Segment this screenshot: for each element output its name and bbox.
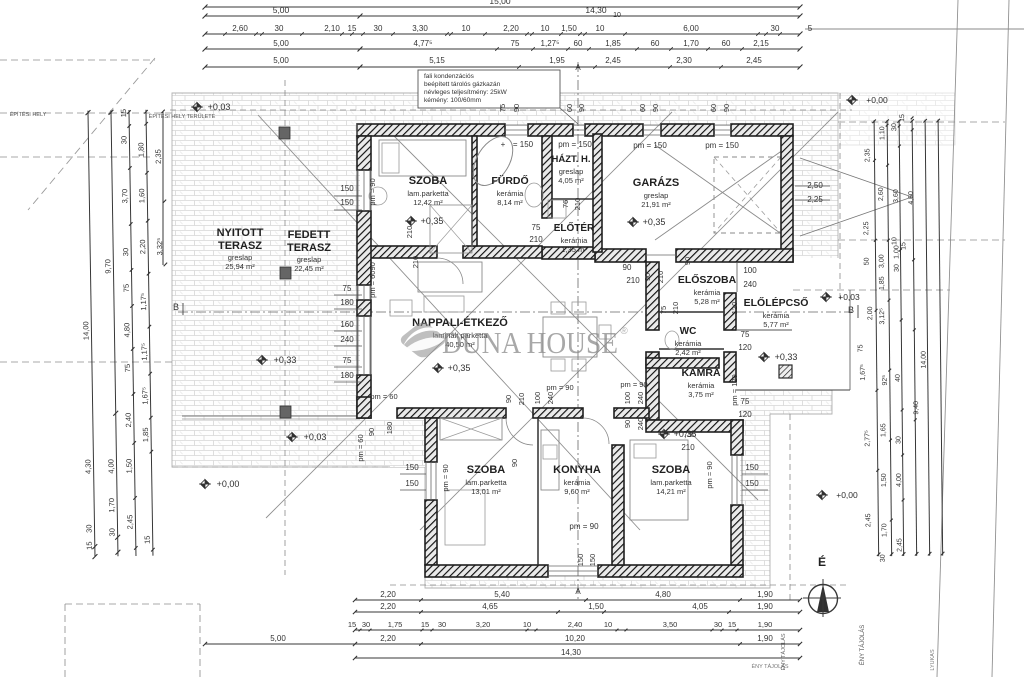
svg-text:3,70: 3,70 [120, 189, 129, 204]
dashed line top-left horizontal [0, 112, 172, 114]
svg-text:5,00: 5,00 [273, 5, 290, 15]
mini dim lines wing east stack [742, 473, 768, 475]
svg-text:SZOBA: SZOBA [409, 175, 448, 187]
svg-text:1,65: 1,65 [880, 423, 887, 437]
svg-text:greslap: greslap [559, 167, 584, 176]
svg-text:60: 60 [709, 104, 718, 112]
wall fürdő/házt.h seg1 [542, 136, 552, 218]
svg-text:4,00: 4,00 [106, 459, 115, 474]
svg-text:ÉPÍTÉSI HELY TERÜLETE: ÉPÍTÉSI HELY TERÜLETE [149, 113, 216, 120]
partition wc/kamra [659, 348, 724, 350]
window west wall 2 [357, 285, 359, 300]
svg-text:1,90: 1,90 [757, 634, 773, 643]
svg-text:+0,00: +0,00 [836, 490, 858, 500]
door szoba arc [437, 258, 463, 284]
svg-text:210: 210 [405, 226, 414, 239]
svg-text:9,70: 9,70 [103, 259, 112, 274]
+0,00 marker right lower [816, 491, 828, 500]
svg-text:kerámia: kerámia [675, 339, 703, 348]
window top gap 3 [643, 124, 661, 126]
svg-text:120: 120 [738, 343, 752, 352]
svg-text:22,45 m²: 22,45 m² [294, 264, 324, 273]
site paving textured area [172, 93, 838, 588]
svg-text:30: 30 [891, 123, 898, 131]
svg-text:75: 75 [857, 344, 864, 352]
svg-text:10: 10 [596, 24, 605, 33]
svg-text:greslap: greslap [644, 191, 669, 200]
svg-text:30: 30 [894, 264, 901, 272]
roof eave dashed outline [170, 109, 852, 111]
svg-text:2,20: 2,20 [380, 634, 396, 643]
window wing west [425, 462, 427, 500]
partition szoba3/konyha [537, 418, 539, 565]
svg-text:beépített tárolós gázkazán: beépített tárolós gázkazán [424, 81, 501, 88]
svg-text:1,80: 1,80 [136, 142, 145, 157]
svg-text:kerámia: kerámia [561, 236, 589, 245]
svg-text:90: 90 [504, 395, 513, 403]
nappali south wall / wing north seg1 [397, 408, 506, 418]
svg-text:1,10: 1,10 [879, 126, 886, 140]
svg-text:4,05 m²: 4,05 m² [558, 176, 584, 185]
property boundary right 2 [992, 0, 1009, 677]
svg-text:75: 75 [684, 430, 693, 439]
garage south wall west part [595, 249, 646, 262]
svg-text:76: 76 [561, 200, 570, 208]
svg-text:pm = 150: pm = 150 [705, 141, 739, 150]
svg-text:30: 30 [714, 620, 722, 629]
svg-text:TERASZ: TERASZ [287, 242, 331, 254]
svg-text:14,00: 14,00 [921, 351, 928, 369]
property boundary right 1 [937, 0, 958, 677]
svg-text:60: 60 [638, 104, 647, 112]
right dim vertical lines [855, 114, 944, 563]
svg-text:pm = 150: pm = 150 [633, 141, 667, 150]
svg-text:90: 90 [510, 459, 519, 467]
wing south wall seg1 [425, 565, 548, 577]
svg-text:2,20: 2,20 [380, 602, 396, 611]
window top gap 4 [714, 124, 731, 126]
svg-text:fali kondenzációs: fali kondenzációs [424, 73, 475, 80]
svg-text:1,75: 1,75 [388, 620, 403, 629]
svg-text:75: 75 [343, 284, 352, 293]
svg-text:90: 90 [722, 104, 731, 112]
svg-text:90: 90 [367, 428, 376, 436]
előlépcső pillar [779, 365, 792, 378]
svg-text:92⁵: 92⁵ [882, 375, 889, 386]
section line B-B horizontal [178, 311, 852, 313]
svg-text:14,00: 14,00 [81, 321, 90, 340]
boiler note box [418, 70, 560, 108]
svg-text:75: 75 [532, 223, 541, 232]
svg-text:1,70: 1,70 [683, 39, 699, 48]
svg-text:1,27⁵: 1,27⁵ [541, 39, 560, 48]
elevation +0,03 bottom left [286, 433, 298, 442]
svg-text:+0,35: +0,35 [643, 217, 666, 227]
wall nappali / előszoba column seg1 [646, 262, 659, 330]
svg-text:15: 15 [143, 536, 152, 544]
svg-text:pm = 6090: pm = 6090 [368, 262, 377, 298]
svg-text:90: 90 [623, 420, 632, 428]
wall under szoba seg2 [463, 246, 542, 258]
svg-text:= 150: = 150 [513, 140, 534, 149]
svg-text:150: 150 [745, 463, 759, 472]
bed szoba top [379, 140, 466, 176]
svg-text:6,00: 6,00 [683, 24, 699, 33]
svg-text:ÉNY TÁJOLÁS: ÉNY TÁJOLÁS [751, 663, 788, 670]
svg-text:kerámia: kerámia [564, 478, 592, 487]
left dim vertical lines [78, 108, 172, 559]
svg-text:ELŐSZOBA: ELŐSZOBA [678, 273, 737, 286]
svg-text:60: 60 [651, 39, 660, 48]
svg-text:15: 15 [348, 620, 356, 629]
elevation +0,35 garázs [627, 218, 639, 227]
exterior wall: top, segment 2 [528, 124, 573, 136]
svg-text:2,45: 2,45 [896, 538, 903, 552]
svg-text:2,60: 2,60 [232, 24, 248, 33]
svg-text:5,00: 5,00 [273, 56, 289, 65]
svg-text:2,35: 2,35 [154, 149, 163, 164]
svg-text:1,90: 1,90 [757, 602, 773, 611]
svg-text:5,15: 5,15 [429, 56, 445, 65]
svg-text:8,14 m²: 8,14 m² [497, 198, 523, 207]
svg-text:2,10: 2,10 [324, 24, 340, 33]
svg-text:KAMRA: KAMRA [681, 367, 720, 379]
svg-text:pm = 90: pm = 90 [569, 522, 599, 531]
svg-text:120: 120 [738, 410, 752, 419]
svg-text:180: 180 [340, 298, 354, 307]
svg-text:pm = 60: pm = 60 [370, 392, 397, 401]
garage south wall [676, 249, 793, 262]
wing west wall seg1 [425, 418, 437, 462]
svg-text:14,30: 14,30 [585, 5, 607, 15]
svg-text:30: 30 [374, 24, 383, 33]
svg-text:21,91 m²: 21,91 m² [641, 200, 671, 209]
svg-text:1,90: 1,90 [758, 620, 773, 629]
svg-text:75: 75 [498, 104, 507, 112]
bottom-left dashed boundary [65, 603, 200, 605]
svg-text:210: 210 [626, 276, 640, 285]
garage east wall [781, 136, 793, 262]
svg-text:4,65: 4,65 [482, 602, 498, 611]
svg-text:1,67⁵: 1,67⁵ [860, 364, 867, 381]
elevation +0,33 terasz [256, 356, 268, 365]
svg-text:1,50: 1,50 [881, 473, 888, 487]
svg-text:A: A [575, 63, 581, 72]
svg-text:pm = 90: pm = 90 [546, 383, 573, 392]
wing south wall seg2 [598, 565, 743, 577]
svg-text:1,35 m²: 1,35 m² [561, 245, 587, 254]
svg-text:pm = 90: pm = 90 [368, 178, 377, 205]
svg-text:15: 15 [348, 24, 357, 33]
svg-text:2,45: 2,45 [746, 56, 762, 65]
svg-text:É: É [818, 554, 826, 569]
svg-text:2,15: 2,15 [753, 39, 769, 48]
svg-text:4,05: 4,05 [692, 602, 708, 611]
exterior wall: top, segment 3 [585, 124, 643, 136]
section line A-A vertical [577, 62, 579, 600]
svg-text:pm = 150: pm = 150 [558, 140, 592, 149]
konyha counter [541, 430, 559, 490]
svg-text:LYUKAS: LYUKAS [930, 649, 936, 671]
svg-text:150: 150 [340, 184, 354, 193]
svg-text:30: 30 [119, 136, 128, 144]
svg-text:2,25: 2,25 [863, 221, 870, 235]
svg-text:90: 90 [623, 263, 632, 272]
svg-text:3,75 m²: 3,75 m² [688, 390, 714, 399]
nappali dining table [543, 317, 597, 357]
svg-text:150: 150 [576, 554, 585, 567]
exterior wall: top, segment 5 + NE corner [731, 124, 793, 136]
+0,03 marker right [820, 293, 832, 302]
svg-text:240: 240 [546, 392, 555, 405]
+0,00 marker top right [846, 96, 858, 105]
svg-text:210: 210 [529, 235, 543, 244]
svg-text:210: 210 [411, 256, 420, 269]
svg-text:2,45: 2,45 [605, 56, 621, 65]
wall under fürdő / előtér south [542, 247, 595, 259]
svg-text:75: 75 [122, 284, 131, 292]
left chain 5 short [162, 112, 164, 265]
svg-text:ÉNY TÁJOLÁS: ÉNY TÁJOLÁS [859, 625, 866, 665]
svg-text:2,25: 2,25 [807, 195, 823, 204]
exterior wall: top, segment 1 [357, 124, 505, 136]
svg-text:210: 210 [517, 393, 526, 406]
kamra north wall [646, 358, 719, 368]
svg-text:2,60: 2,60 [878, 187, 885, 201]
svg-text:+0,00: +0,00 [217, 479, 240, 489]
window west wall 3 [357, 316, 359, 375]
svg-text:WC: WC [680, 326, 697, 337]
west wall face lines [356, 124, 358, 418]
svg-text:1,95: 1,95 [549, 56, 565, 65]
svg-text:3,50: 3,50 [663, 620, 678, 629]
mini dim lines west wall stacks [334, 195, 362, 197]
svg-text:15: 15 [119, 109, 128, 117]
svg-text:kémény: 100/60mm: kémény: 100/60mm [424, 97, 481, 104]
elevation +0,00 bottom left [199, 480, 211, 489]
nappali SW corner block [357, 397, 371, 418]
svg-text:10: 10 [604, 620, 612, 629]
garage roof dashed square [714, 157, 781, 233]
svg-text:kerámia: kerámia [497, 189, 525, 198]
svg-text:100: 100 [743, 266, 757, 275]
svg-text:B: B [173, 302, 179, 312]
svg-text:180: 180 [340, 371, 354, 380]
svg-text:240: 240 [636, 392, 645, 405]
svg-text:30: 30 [895, 436, 902, 444]
svg-text:kerámia: kerámia [688, 381, 716, 390]
west exterior wall seg3 [357, 300, 371, 316]
svg-text:3,60: 3,60 [893, 189, 900, 203]
garage roof X diagonal 2 [655, 145, 790, 240]
svg-text:75: 75 [659, 306, 668, 314]
svg-text:90: 90 [643, 273, 652, 281]
svg-text:13,01 m²: 13,01 m² [471, 487, 501, 496]
svg-text:90: 90 [577, 104, 586, 112]
window wing south [548, 565, 598, 567]
svg-text:5: 5 [808, 24, 813, 33]
svg-text:+0,35: +0,35 [421, 216, 444, 226]
svg-text:greslap: greslap [228, 253, 253, 262]
svg-text:2,42 m²: 2,42 m² [675, 348, 701, 357]
svg-text:4,00: 4,00 [896, 473, 903, 487]
svg-text:2,45: 2,45 [125, 515, 134, 530]
svg-text:1,85: 1,85 [141, 427, 150, 442]
svg-text:2,20: 2,20 [503, 24, 519, 33]
paving under bottom wing [390, 420, 425, 467]
svg-text:30: 30 [108, 528, 117, 536]
svg-text:+0,33: +0,33 [274, 355, 297, 365]
svg-text:1,90: 1,90 [757, 590, 773, 599]
svg-text:240: 240 [636, 418, 645, 431]
svg-text:10: 10 [891, 237, 898, 245]
svg-text:180: 180 [385, 422, 394, 435]
svg-text:10: 10 [541, 24, 550, 33]
svg-text:15: 15 [421, 620, 429, 629]
svg-text:4,80: 4,80 [655, 590, 671, 599]
svg-text:5,40: 5,40 [494, 590, 510, 599]
svg-text:GARÁZS: GARÁZS [633, 176, 679, 189]
svg-text:210: 210 [671, 302, 680, 315]
svg-text:1,17⁵: 1,17⁵ [139, 293, 148, 311]
svg-text:160: 160 [340, 320, 354, 329]
elevation +0,33 előlépcső [758, 353, 770, 362]
svg-text:DUNA HOUSE: DUNA HOUSE [442, 325, 618, 360]
svg-text:75: 75 [741, 330, 750, 339]
svg-text:kerámia: kerámia [694, 288, 722, 297]
svg-text:®: ® [620, 326, 628, 337]
svg-text:+: + [501, 140, 506, 149]
door wing arc [506, 418, 533, 445]
svg-text:40: 40 [895, 374, 902, 382]
svg-text:pm = 60: pm = 60 [356, 434, 365, 461]
svg-text:100: 100 [623, 392, 632, 405]
svg-text:2,20: 2,20 [138, 239, 147, 254]
garage east gable lines [800, 158, 912, 197]
svg-text:pm = 90: pm = 90 [441, 464, 450, 491]
mini dim lines wing west stack [400, 473, 426, 475]
svg-text:10: 10 [523, 620, 531, 629]
bathtub fürdő [465, 130, 521, 193]
svg-text:75: 75 [741, 397, 750, 406]
svg-text:NYITOTT: NYITOTT [217, 227, 264, 239]
svg-text:+0,35: +0,35 [448, 363, 471, 373]
nappali sofa group [418, 262, 482, 292]
top dimension chain lines [205, 6, 800, 8]
svg-text:4,77⁵: 4,77⁵ [414, 39, 433, 48]
svg-text:30: 30 [275, 24, 284, 33]
svg-text:5,00: 5,00 [273, 39, 289, 48]
előszoba east wall seg2 [724, 352, 736, 382]
svg-text:lam.parketta: lam.parketta [465, 478, 507, 487]
svg-text:SZOBA: SZOBA [652, 464, 691, 476]
svg-text:150: 150 [745, 479, 759, 488]
wc fixture [665, 331, 679, 349]
boundary top-left diagonal [28, 58, 155, 210]
svg-text:2,40: 2,40 [124, 413, 133, 428]
svg-text:1,60: 1,60 [137, 188, 146, 203]
svg-text:75: 75 [343, 356, 352, 365]
svg-text:FEDETT: FEDETT [288, 229, 331, 241]
window top gap 1 [505, 124, 528, 126]
svg-text:3,20: 3,20 [476, 620, 491, 629]
svg-text:14,21 m²: 14,21 m² [656, 487, 686, 496]
dashed vertical right of house [839, 93, 841, 300]
terrace column 3 [280, 406, 291, 418]
terrace column 2 [280, 267, 291, 279]
svg-text:9,40: 9,40 [913, 401, 920, 415]
svg-text:10,20: 10,20 [565, 634, 586, 643]
wall nappali / kamra column seg2 [646, 352, 659, 420]
svg-text:KONYHA: KONYHA [553, 464, 601, 476]
svg-text:névleges teljesítmény: 25kW: névleges teljesítmény: 25kW [424, 89, 508, 96]
svg-text:30: 30 [84, 524, 93, 532]
svg-text:HÁZT. H.: HÁZT. H. [551, 154, 590, 165]
svg-text:30: 30 [362, 620, 370, 629]
svg-text:1,50: 1,50 [588, 602, 604, 611]
terrace column 1 [279, 127, 290, 139]
előszoba east wall seg1 [724, 293, 736, 330]
partition szoba/fürdő [472, 136, 477, 246]
dashed eave right of wing [789, 414, 791, 600]
svg-text:+0,03: +0,03 [838, 292, 860, 302]
svg-text:9,60 m²: 9,60 m² [564, 487, 590, 496]
wing west wall seg2 [425, 500, 437, 565]
svg-text:60: 60 [565, 104, 574, 112]
svg-text:90: 90 [512, 104, 521, 112]
window west wall 1 [357, 170, 359, 211]
fürdő sink [525, 183, 543, 207]
svg-text:2,45: 2,45 [865, 513, 872, 527]
svg-text:2,20: 2,20 [380, 590, 396, 599]
svg-text:pm = 120: pm = 120 [730, 374, 739, 405]
svg-text:5,28 m²: 5,28 m² [694, 297, 720, 306]
svg-text:+0,03: +0,03 [208, 102, 231, 112]
svg-text:100: 100 [533, 392, 542, 405]
svg-text:1,70: 1,70 [881, 523, 888, 537]
svg-text:14,30: 14,30 [561, 648, 582, 657]
svg-text:1,67⁵: 1,67⁵ [140, 387, 149, 405]
svg-text:210: 210 [681, 443, 695, 452]
svg-text:90: 90 [683, 257, 692, 265]
roof hip diagonal L2 NE-SW [420, 112, 838, 530]
svg-text:1,50: 1,50 [124, 459, 133, 474]
partition házt.h / előtér [552, 198, 593, 200]
door garage south [646, 254, 676, 256]
svg-text:60: 60 [574, 39, 583, 48]
svg-text:greslap: greslap [297, 255, 322, 264]
wall under szoba (north wall of nappali) seg1 [369, 246, 437, 258]
svg-text:5,00: 5,00 [270, 634, 286, 643]
elevation +0,03 top left [191, 103, 203, 112]
bottom dim chain lines [355, 599, 800, 601]
svg-text:2,00: 2,00 [867, 306, 874, 320]
svg-text:15,00: 15,00 [489, 0, 511, 6]
svg-text:30: 30 [771, 24, 780, 33]
svg-text:1,85: 1,85 [605, 39, 621, 48]
svg-text:240: 240 [743, 280, 757, 289]
svg-text:+0,00: +0,00 [866, 95, 888, 105]
svg-text:150: 150 [405, 463, 419, 472]
svg-text:2,35: 2,35 [864, 148, 871, 162]
svg-text:30: 30 [880, 554, 887, 562]
svg-text:75: 75 [511, 39, 520, 48]
wing east wall seg1 [731, 420, 743, 455]
window top gap 2 [573, 124, 585, 126]
svg-text:pm = 90: pm = 90 [705, 461, 714, 488]
west exterior wall seg2 [357, 211, 371, 285]
svg-text:1,70: 1,70 [107, 498, 116, 513]
